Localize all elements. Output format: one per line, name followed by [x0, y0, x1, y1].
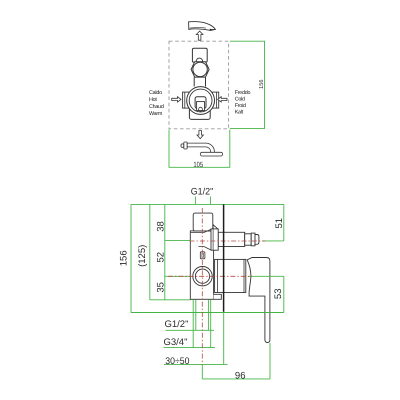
svg-text:(125): (125) — [137, 245, 148, 267]
cartridge — [195, 97, 206, 109]
svg-text:Caldo: Caldo — [149, 90, 162, 96]
bottom stub extension G1/2 inner pair — [195, 300, 197, 331]
arrow up (flow to spout) — [196, 31, 203, 40]
bump circle on hex — [196, 58, 202, 64]
dim line 125 vertical — [149, 204, 151, 299]
set screw — [200, 252, 205, 259]
pipe flange chamfer — [213, 225, 218, 229]
left wing — [183, 92, 190, 108]
main circle outer — [187, 87, 215, 115]
hex inner circle — [193, 62, 207, 76]
svg-text:35: 35 — [156, 282, 167, 293]
G1/2 top extension lines — [194, 197, 196, 205]
wall-line extension vertical — [223, 313, 225, 365]
tick at body bottom — [150, 299, 191, 301]
svg-text:96: 96 — [235, 370, 246, 381]
tick 53 top — [248, 275, 284, 277]
svg-text:53: 53 — [273, 289, 284, 300]
96 dim extension centre — [201, 365, 203, 379]
green box 156 (right) — [230, 41, 265, 128]
valve body front view: top tube — [192, 48, 207, 62]
shower head — [200, 152, 222, 156]
escutcheon sleeve — [215, 259, 246, 292]
tick at handle centre left — [165, 275, 191, 277]
svg-text:38: 38 — [156, 221, 167, 232]
svg-text:Freddo: Freddo — [235, 90, 251, 96]
body shoulder line lower — [198, 247, 211, 251]
shower arm escutcheon — [184, 142, 187, 149]
96 dim line — [202, 378, 270, 380]
red centreline vertical — [201, 208, 203, 365]
tick 51 bottom — [262, 240, 284, 242]
top tube — [193, 213, 213, 231]
main body — [190, 231, 213, 299]
red centreline handle axis — [168, 275, 252, 277]
neck — [194, 77, 205, 86]
svg-text:30÷50: 30÷50 — [165, 356, 189, 367]
svg-text:G1/2": G1/2" — [191, 187, 214, 198]
G3/4 leader line — [164, 347, 216, 349]
main circle inner — [189, 89, 212, 112]
dim vertical 53 — [283, 276, 285, 312]
svg-text:156: 156 — [118, 250, 129, 266]
svg-text:Kalt: Kalt — [235, 109, 244, 115]
dim line top horizontal — [131, 203, 284, 205]
svg-text:Froid: Froid — [235, 103, 246, 109]
svg-text:156: 156 — [259, 80, 265, 89]
svg-text:Warm: Warm — [149, 111, 163, 117]
svg-text:105: 105 — [193, 160, 203, 169]
svg-text:G3/4": G3/4" — [164, 337, 188, 348]
svg-text:52: 52 — [156, 252, 167, 263]
outlet boss circle — [193, 267, 212, 286]
bottom block — [189, 104, 210, 119]
96 dim extension handle — [269, 343, 271, 379]
arrow cold (right, pointing left) — [218, 97, 227, 102]
tick at side pipe centre — [165, 239, 191, 241]
dim line 38-52-35 vertical — [164, 204, 166, 299]
30÷50 leader line — [164, 364, 228, 366]
right wing — [212, 92, 219, 108]
G1/2 leader line — [166, 329, 215, 331]
arrow down (outlet to shower) — [197, 131, 203, 139]
body shoulder line upper — [191, 229, 211, 232]
svg-text:Hot: Hot — [149, 97, 157, 103]
spout (wall spout above installation box) — [189, 22, 216, 31]
hex nut — [191, 62, 209, 77]
handle blade — [247, 258, 270, 343]
svg-text:51: 51 — [274, 218, 285, 229]
pipe flange — [211, 229, 218, 250]
green box 105 (bottom) — [169, 130, 230, 168]
dashed installation box — [169, 41, 229, 129]
wall line — [223, 204, 225, 311]
svg-text:Chaud: Chaud — [149, 104, 164, 110]
dim vertical 51 — [283, 204, 285, 241]
dim line 156 vertical — [130, 204, 132, 312]
valve body side view — [190, 213, 270, 342]
svg-text:Cold: Cold — [235, 96, 245, 102]
side pipe — [218, 232, 245, 246]
screw — [199, 107, 203, 111]
bottom stub extension G3/4 outer pair — [192, 300, 194, 348]
svg-text:G1/2": G1/2" — [165, 319, 189, 330]
step bottom right — [214, 294, 222, 299]
bottom line of 156/53 — [131, 312, 284, 314]
shower arm pipe with bend — [187, 143, 214, 152]
arrow hot (left, pointing right) — [172, 97, 181, 102]
red centreline side pipe — [190, 240, 266, 242]
